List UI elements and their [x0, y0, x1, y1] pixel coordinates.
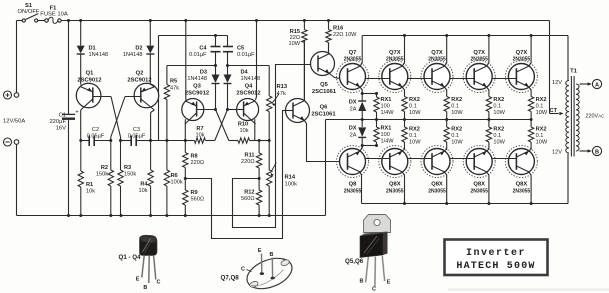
svg-text:1/4W: 1/4W: [381, 110, 395, 116]
node Q7 emitter junction: [361, 92, 378, 95]
resistor RX1 upper: [374, 94, 394, 120]
svg-text:RX2: RX2: [536, 97, 547, 103]
svg-text:C4: C4: [199, 46, 207, 52]
wire ground riser to emitter bus: [325, 120, 327, 216]
svg-text:R8: R8: [191, 154, 198, 160]
wire CT feed: [550, 21, 564, 116]
wire C4 C5 top line: [159, 36, 228, 141]
svg-text:Q2: Q2: [136, 71, 144, 77]
wire Q8X collector: [486, 172, 489, 204]
transistor Q7X 2N3055: [421, 50, 453, 93]
wire base bus bottom segment: [408, 158, 432, 160]
svg-text:FUSE 10A: FUSE 10A: [40, 11, 68, 17]
node terminal B: [592, 146, 601, 155]
node top rail junctions: [67, 19, 330, 22]
svg-text:Q8X: Q8X: [431, 182, 443, 188]
wire Q7X collector: [529, 36, 532, 67]
resistor R1: [78, 141, 95, 216]
package TO-3 pins: [260, 254, 275, 280]
svg-text:Q7: Q7: [349, 50, 357, 56]
svg-text:2N3055: 2N3055: [386, 57, 404, 63]
wire Q4 collector: [254, 119, 256, 140]
transistor Q2: [127, 71, 158, 111]
svg-text:RX1: RX1: [381, 97, 392, 103]
svg-text:E: E: [136, 277, 140, 283]
wire bottom rail: [17, 215, 326, 217]
svg-text:12V: 12V: [552, 80, 562, 86]
svg-text:Q7,Q8: Q7,Q8: [221, 275, 240, 282]
resistor RX2 lower col4: [528, 120, 547, 152]
node R14 top junction: [268, 139, 271, 142]
resistor R7: [185, 126, 215, 143]
svg-text:100k: 100k: [285, 182, 298, 188]
svg-text:RX2: RX2: [451, 97, 462, 103]
svg-text:1/4W: 1/4W: [381, 139, 395, 145]
svg-text:RX2: RX2: [493, 97, 504, 103]
svg-text:RX2: RX2: [536, 127, 547, 133]
svg-text:0.1: 0.1: [409, 133, 417, 139]
resistor R4: [138, 141, 153, 216]
wire Q8X collector: [529, 172, 532, 204]
svg-text:R11: R11: [245, 153, 255, 159]
svg-text:10W: 10W: [536, 140, 548, 146]
battery negative symbol: [4, 138, 12, 146]
svg-text:E: E: [387, 280, 391, 286]
transistor Q4: [236, 84, 260, 125]
wire R10 line to R13 column: [259, 140, 269, 142]
svg-text:10k: 10k: [86, 189, 95, 195]
svg-text:47k: 47k: [277, 91, 286, 97]
package TO-220 body: [360, 232, 388, 258]
svg-text:2N3055: 2N3055: [428, 189, 446, 195]
wire Q8X collector: [402, 172, 405, 204]
svg-text:Q1 - Q4: Q1 - Q4: [119, 254, 142, 261]
wire D4 node to R13: [228, 65, 270, 67]
svg-text:Q8X: Q8X: [516, 182, 528, 188]
node Q1 collector junction: [79, 139, 82, 142]
svg-text:R1: R1: [86, 182, 93, 188]
wire Q4 emitter to rail: [256, 21, 257, 100]
wire base bus bottom segment: [492, 158, 516, 160]
svg-text:150k: 150k: [96, 172, 108, 178]
svg-text:B: B: [270, 252, 274, 258]
resistor RX2 upper col2: [444, 87, 463, 120]
label TO-220 pins: [360, 279, 391, 293]
transistor Q7 2N3055: [337, 50, 369, 93]
node R8 R9 tap: [184, 177, 187, 180]
svg-text:0.05µF: 0.05µF: [87, 134, 105, 140]
svg-text:HATECH 500W: HATECH 500W: [456, 261, 535, 272]
wire Q7 emitter: [360, 87, 362, 94]
svg-text:Q3: Q3: [193, 84, 202, 90]
svg-text:RX1: RX1: [381, 126, 392, 132]
svg-text:R6: R6: [171, 173, 178, 179]
resistor RX2 lower col1: [402, 120, 421, 152]
svg-text:22Ω 10W: 22Ω 10W: [333, 32, 357, 38]
svg-text:0.1: 0.1: [451, 133, 459, 139]
transistor Q7X 2N3055: [463, 50, 495, 93]
svg-text:D2: D2: [135, 46, 142, 52]
svg-text:1N4148: 1N4148: [123, 52, 143, 58]
svg-text:+: +: [75, 110, 78, 116]
transistor Q7X 2N3055: [379, 50, 411, 93]
resistor R11: [241, 141, 262, 179]
svg-text:10W: 10W: [451, 140, 463, 146]
svg-text:0.1: 0.1: [493, 133, 501, 139]
svg-text:RX2: RX2: [409, 97, 420, 103]
wire R11R12 tap loop to Q5 base: [233, 65, 318, 228]
svg-text:10W: 10W: [451, 110, 463, 116]
svg-text:ON/OFF: ON/OFF: [18, 9, 40, 15]
diode D3: [187, 66, 219, 110]
wire base bus top segment: [366, 78, 390, 80]
resistor R2: [96, 141, 114, 216]
transformer T1 labels: [550, 69, 605, 156]
package TO-3 Q7Q8 can: [243, 252, 297, 293]
svg-text:2N3055: 2N3055: [344, 57, 362, 63]
svg-text:100k: 100k: [171, 180, 183, 186]
svg-text:D4: D4: [241, 70, 249, 76]
label TO-92 pins: [136, 277, 161, 292]
svg-text:R7: R7: [196, 126, 203, 132]
svg-text:R5: R5: [170, 79, 177, 85]
node bottom bus junctions: [403, 202, 533, 205]
svg-text:10W: 10W: [493, 140, 505, 146]
svg-text:Q8X: Q8X: [473, 182, 485, 188]
svg-text:150k: 150k: [124, 172, 136, 178]
svg-text:220V: 220V: [586, 114, 599, 120]
svg-text:Q1: Q1: [86, 71, 95, 77]
transistor Q7X 2N3055: [505, 50, 537, 93]
resistor R15: [288, 21, 307, 101]
svg-text:Inverter: Inverter: [466, 248, 526, 259]
wire Q5 collector to R16: [328, 43, 331, 54]
wire base bus top segment: [492, 78, 516, 80]
svg-text:R12: R12: [244, 190, 254, 196]
wire Q3 base: [197, 109, 215, 111]
wire Q3 collector: [184, 119, 186, 140]
capacitor C4: [189, 36, 221, 66]
svg-text:R2: R2: [101, 165, 108, 171]
svg-text:D3: D3: [200, 70, 207, 76]
svg-text:2N3055: 2N3055: [513, 189, 531, 195]
svg-text:0.05µF: 0.05µF: [128, 134, 146, 140]
svg-text:C3: C3: [133, 127, 140, 133]
svg-text:R4: R4: [140, 182, 148, 188]
svg-text:C2: C2: [92, 127, 99, 133]
svg-text:10k: 10k: [138, 188, 147, 194]
transformer T1 secondary: [576, 84, 579, 151]
svg-text:D1: D1: [89, 46, 96, 52]
wire top rail: [61, 20, 549, 22]
label Q1-Q4: [119, 254, 142, 261]
diode D4: [224, 66, 261, 110]
wire Q7X collector: [402, 36, 405, 67]
wire base bus top segment: [408, 78, 432, 80]
svg-text:AC: AC: [598, 114, 604, 119]
svg-text:220µF: 220µF: [49, 119, 66, 125]
resistor R6: [164, 141, 183, 216]
label TO-3 pins: [241, 248, 274, 273]
svg-text:10W: 10W: [409, 110, 421, 116]
transformer T1 primary: [566, 81, 569, 154]
svg-text:10W: 10W: [493, 110, 505, 116]
resistor RX2 upper col3: [486, 87, 505, 120]
resistor RX1 lower: [374, 120, 394, 146]
wire secondary lead B: [580, 149, 592, 152]
svg-text:10W: 10W: [288, 41, 300, 47]
svg-text:B: B: [360, 279, 364, 285]
capacitor C5: [223, 36, 255, 66]
svg-text:Q8X: Q8X: [389, 182, 401, 188]
node terminal A: [592, 79, 601, 88]
svg-text:C5: C5: [237, 46, 244, 52]
wire base bus bottom segment: [366, 158, 390, 160]
svg-text:R13: R13: [277, 84, 288, 90]
node R3 top junction: [119, 139, 122, 142]
svg-text:2N3055: 2N3055: [470, 189, 488, 195]
resistor R3: [118, 141, 137, 216]
capacitor C1: [49, 21, 78, 216]
svg-text:B: B: [143, 285, 147, 291]
resistor R12: [241, 179, 262, 216]
svg-text:Q7X: Q7X: [516, 50, 528, 56]
svg-text:2N3055: 2N3055: [386, 189, 404, 195]
svg-text:2SC1061: 2SC1061: [312, 89, 337, 95]
svg-text:1N4148: 1N4148: [187, 76, 207, 82]
svg-text:2SC1061: 2SC1061: [311, 111, 336, 117]
wire battery positive drop: [16, 21, 18, 93]
svg-text:0.1: 0.1: [451, 104, 459, 110]
node R2 top junction: [109, 139, 112, 142]
resistor R16: [326, 21, 357, 54]
wire Q5 emitter to Q7 base: [329, 74, 339, 79]
svg-text:12V: 12V: [552, 150, 562, 156]
wire Q2 base cross-coupling: [111, 97, 142, 141]
capacitor C2: [81, 127, 111, 146]
svg-text:1N4148: 1N4148: [241, 76, 261, 82]
svg-text:T1: T1: [570, 69, 578, 75]
svg-text:E: E: [258, 248, 262, 254]
wire Q3 base to R10 diagonal: [216, 110, 229, 141]
resistor RX2 upper col1: [402, 87, 421, 120]
svg-text:Q5: Q5: [320, 82, 329, 88]
resistor R9: [183, 179, 204, 216]
wire Q2 collector: [151, 110, 155, 141]
wire Q7 collector: [360, 36, 363, 67]
svg-text:12V/50A: 12V/50A: [3, 119, 25, 125]
node emitter bus junctions: [361, 118, 533, 121]
svg-text:RX2: RX2: [493, 127, 504, 133]
transistor Q8X 2N3055: [379, 146, 411, 195]
resistor R13 trimmer: [267, 66, 288, 141]
wire R7 to Q4 base diagonal: [215, 110, 228, 141]
svg-text:Q7X: Q7X: [473, 50, 485, 56]
svg-text:0.01µF: 0.01µF: [237, 52, 255, 58]
transistor Q1: [76, 71, 101, 111]
wire battery negative drop: [16, 144, 18, 215]
transformer T1 core: [571, 76, 574, 157]
resistor R14 trimmer: [267, 141, 298, 216]
resistor R8: [183, 141, 204, 179]
wire D3 node to R5: [167, 65, 216, 67]
wire base bus top segment: [450, 78, 474, 80]
svg-text:10W: 10W: [536, 110, 548, 116]
svg-text:560Ω: 560Ω: [241, 196, 255, 202]
wire Q1 base cross-coupling: [93, 97, 120, 141]
label Q7,Q8: [221, 275, 240, 282]
svg-text:47k: 47k: [170, 86, 179, 92]
wire Q2 collector node to R5R6: [151, 140, 186, 142]
wire Q8 collector: [360, 172, 362, 204]
resistor R10: [229, 122, 259, 144]
transistor Q8 2N3055: [337, 146, 369, 195]
wire Q1 collector: [80, 110, 82, 141]
node bottom rail junctions: [67, 214, 271, 217]
fuse F1: [40, 5, 68, 23]
svg-text:A: A: [595, 82, 599, 88]
svg-text:0.1: 0.1: [536, 133, 544, 139]
package TO-220 leads: [366, 256, 385, 287]
wire Q6 collector to R15: [303, 41, 305, 101]
package TO-92 leads: [142, 255, 156, 283]
battery positive symbol: [4, 91, 12, 99]
node C5 D4 junction: [226, 64, 229, 67]
node Q3 base junction: [214, 108, 217, 111]
transistor Q6: [286, 99, 337, 123]
svg-text:0.1: 0.1: [536, 104, 544, 110]
diode D2: [123, 21, 154, 85]
scan artifact bottom streak: [448, 289, 609, 291]
node C4 top junction: [214, 34, 217, 37]
transistor Q8X 2N3055: [421, 146, 453, 195]
svg-text:C: C: [241, 267, 245, 273]
svg-text:R10: R10: [238, 122, 248, 128]
svg-text:C: C: [157, 280, 161, 286]
wire Q7 collector bus: [362, 36, 568, 81]
svg-text:2SC9012: 2SC9012: [77, 78, 101, 84]
diode D1: [77, 21, 108, 85]
wire emitter ground bus: [326, 119, 532, 121]
node R11 R12 tap: [258, 177, 261, 180]
diode DX upper: [349, 94, 366, 120]
diode DX lower: [349, 120, 366, 146]
svg-text:0.1: 0.1: [493, 104, 501, 110]
svg-text:2N3055: 2N3055: [428, 57, 446, 63]
svg-text:CT: CT: [550, 108, 558, 114]
wire Q8 emitter: [360, 146, 362, 152]
svg-text:1N4148: 1N4148: [89, 52, 109, 58]
battery 12V/50A label: [3, 119, 25, 125]
svg-text:10k: 10k: [195, 133, 204, 139]
svg-text:2N3055: 2N3055: [470, 57, 488, 63]
svg-text:R14: R14: [285, 175, 296, 181]
label Q5,Q6: [345, 258, 364, 265]
wire Q8 collector bus: [362, 154, 569, 204]
svg-text:DX: DX: [349, 100, 357, 106]
svg-text:C1: C1: [59, 113, 66, 119]
capacitor C3: [121, 127, 151, 146]
wire R8R9 tap loop to Q6 base: [185, 111, 285, 239]
wire Q7X collector: [444, 36, 447, 67]
node R5 R6 junction: [165, 139, 168, 142]
wire Q4 base: [228, 109, 244, 111]
svg-text:100: 100: [381, 104, 390, 110]
wire S1 to F1: [38, 20, 45, 22]
wire Q6 emitter to Q8 base: [304, 121, 347, 162]
svg-text:B: B: [595, 149, 599, 155]
resistor R5: [164, 66, 179, 141]
node C4 D3 junction: [214, 64, 217, 67]
svg-text:220Ω: 220Ω: [241, 159, 255, 165]
package TO-220 Q5Q6 tab: [364, 215, 391, 233]
node top bus junctions: [403, 34, 533, 37]
svg-text:2A: 2A: [350, 133, 357, 139]
svg-text:2A: 2A: [350, 107, 357, 113]
svg-text:R16: R16: [333, 26, 343, 32]
node Q2 collector junction: [149, 139, 152, 142]
wire Q8X collector: [444, 172, 447, 204]
svg-text:RX2: RX2: [409, 127, 420, 133]
wire base bus bottom segment: [450, 158, 474, 160]
svg-text:2N3055: 2N3055: [513, 57, 531, 63]
svg-text:10k: 10k: [239, 128, 248, 134]
transistor Q8X 2N3055: [505, 146, 537, 195]
svg-text:Q7X: Q7X: [389, 50, 401, 56]
package TO-92 Q1-Q4 body: [140, 235, 158, 255]
wire secondary lead A: [580, 82, 592, 85]
svg-text:Q4: Q4: [245, 84, 254, 90]
svg-text:560Ω: 560Ω: [191, 197, 205, 203]
transistor Q8X 2N3055: [463, 146, 495, 195]
node Q4 base junction: [226, 108, 229, 111]
svg-text:Q6: Q6: [320, 104, 329, 110]
wire Q7X collector: [486, 36, 489, 67]
svg-text:C: C: [372, 287, 376, 293]
svg-text:RX2: RX2: [451, 127, 462, 133]
node Q8 emitter junction: [361, 144, 378, 147]
transistor Q5: [311, 52, 337, 96]
node battery negative terminal: [14, 140, 19, 145]
svg-text:Q7X: Q7X: [431, 50, 443, 56]
resistor RX2 lower col2: [444, 120, 463, 152]
svg-text:10W: 10W: [409, 140, 421, 146]
switch S1: [18, 3, 40, 22]
svg-text:2SC9012: 2SC9012: [185, 91, 209, 97]
svg-text:R3: R3: [124, 165, 131, 171]
svg-text:2N3055: 2N3055: [344, 189, 362, 195]
node R11 top junction: [258, 139, 261, 142]
svg-text:DX: DX: [349, 126, 357, 132]
svg-text:0.01µF: 0.01µF: [189, 52, 207, 58]
svg-text:2SC9012: 2SC9012: [127, 78, 151, 84]
svg-text:0.1: 0.1: [409, 104, 417, 110]
transistor Q3: [182, 84, 209, 125]
resistor RX2 upper col4: [528, 87, 547, 120]
node battery positive terminal: [14, 93, 19, 98]
svg-text:220Ω: 220Ω: [191, 160, 205, 166]
resistor RX2 lower col3: [486, 120, 505, 152]
svg-text:16V: 16V: [56, 126, 66, 132]
node Q3 collector junction: [184, 139, 187, 142]
wire Q6 base: [283, 110, 294, 112]
svg-text:100: 100: [381, 132, 390, 138]
svg-text:R9: R9: [191, 190, 198, 196]
label inverter title box: [445, 240, 548, 276]
wire Q2 emitter: [150, 84, 154, 87]
svg-text:Q5,Q6: Q5,Q6: [345, 258, 364, 265]
svg-text:Q8: Q8: [349, 182, 358, 188]
